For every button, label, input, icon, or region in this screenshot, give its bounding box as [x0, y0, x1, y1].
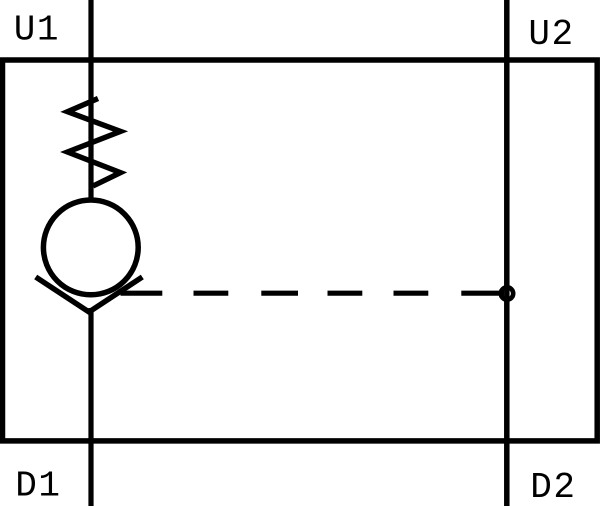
pilot line (dashed): [121, 291, 505, 296]
pilot connection node on right port line: [501, 287, 513, 299]
spring: [68, 99, 121, 187]
wire: right port line U2 to D2: [504, 0, 510, 506]
svg-text:D1: D1: [15, 465, 61, 506]
valve body envelope (outer rectangle): [3, 60, 598, 441]
check valve seat: [36, 277, 143, 312]
check valve ball: [43, 200, 138, 295]
svg-text:D2: D2: [530, 467, 576, 506]
svg-text:U2: U2: [528, 14, 574, 55]
svg-text:U1: U1: [14, 9, 60, 50]
wire: left port line ball seat to D1 (lower segment): [88, 308, 93, 506]
wire: left port line U1 to spring/ball (upper segment): [88, 0, 93, 199]
